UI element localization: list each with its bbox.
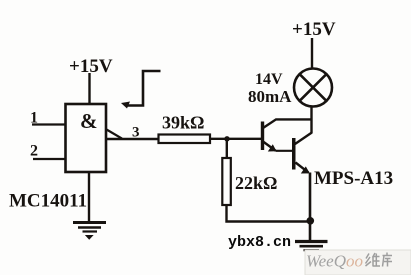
watermark WeeQoo box	[305, 250, 411, 275]
svg-text:22kΩ: 22kΩ	[235, 173, 277, 193]
wire collector vertical from lamp	[310, 107, 312, 134]
transistor Q1 base bar	[261, 122, 264, 151]
op-amp U1 MC14011 NAND gate body	[66, 104, 107, 172]
transistor Q2 emitter	[296, 163, 309, 173]
watermark CJK 维库	[366, 253, 393, 267]
transistor Q1 collector	[263, 119, 312, 128]
wire pin 1	[32, 123, 66, 125]
resistor R2 22k body	[222, 158, 231, 205]
transistor Q2 collector	[295, 133, 312, 144]
ground (right)	[295, 242, 328, 258]
svg-text:WeeQoo: WeeQoo	[306, 252, 363, 271]
wire pin 2	[33, 158, 66, 160]
svg-text:MPS-A13: MPS-A13	[314, 168, 393, 189]
svg-text:14V: 14V	[255, 71, 283, 88]
svg-text:ybx8.cn: ybx8.cn	[228, 234, 291, 251]
ground (left)	[73, 223, 106, 240]
wire +15V left to gate top	[88, 73, 90, 104]
node emitter junction dot	[307, 217, 315, 225]
wire R1 to base node	[210, 138, 262, 140]
transistor Q1 emitter	[263, 142, 276, 151]
wire R2 bottom to emitter node	[227, 205, 312, 222]
wire emitter vertical down	[309, 173, 312, 242]
transistor Q2 base bar	[292, 138, 296, 170]
lamp DS1	[294, 69, 332, 107]
wire +15V right to lamp	[311, 38, 313, 69]
svg-text:80mA: 80mA	[248, 87, 292, 106]
step waveform symbol	[126, 71, 161, 106]
svg-text:&: &	[80, 109, 98, 133]
resistor R1 39k body	[159, 135, 211, 144]
svg-text:MC14011: MC14011	[9, 191, 87, 212]
svg-text:39kΩ: 39kΩ	[162, 113, 204, 133]
svg-text:2: 2	[30, 143, 38, 160]
wire node down to R2	[226, 139, 228, 158]
svg-text:+15V: +15V	[69, 56, 113, 77]
node junction dot	[224, 136, 229, 141]
wire gate bottom to ground	[88, 172, 90, 222]
svg-text:+15V: +15V	[292, 19, 336, 40]
wire pin 3 output	[106, 138, 159, 140]
wire Q1 emitter to Q2 base	[276, 150, 293, 152]
gate output polarity wedge	[107, 130, 123, 139]
